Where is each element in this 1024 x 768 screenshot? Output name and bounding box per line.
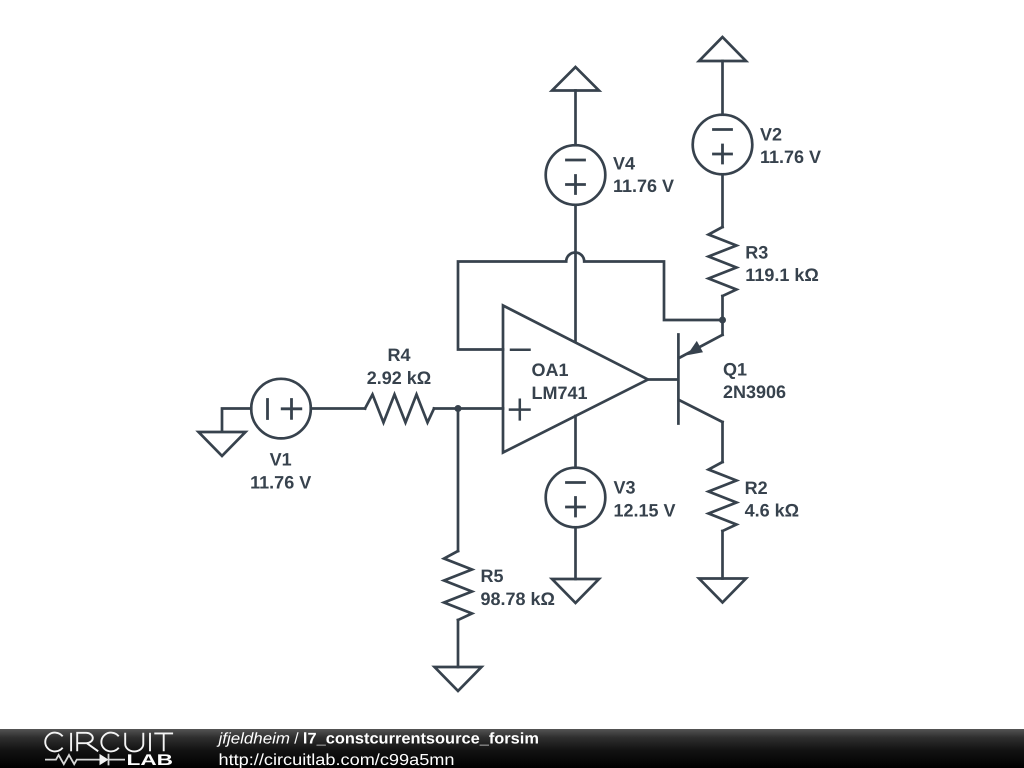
- svg-text:V2: V2: [760, 125, 782, 145]
- node A junction: [455, 405, 462, 412]
- label V1 11.76 V: [250, 450, 311, 493]
- svg-text:98.78 kΩ: 98.78 kΩ: [481, 589, 556, 609]
- label R5 98.78 kOhm: [481, 566, 556, 609]
- svg-text:OA1: OA1: [532, 360, 569, 380]
- transistor Q1: [678, 335, 722, 424]
- svg-text:V1: V1: [270, 450, 292, 470]
- wire op-amp V- to V3: [574, 416, 577, 468]
- wire V1 to R4: [311, 407, 365, 410]
- wire R3 to node B: [721, 296, 724, 320]
- resistor R4: [365, 395, 434, 423]
- voltage source V2: [693, 115, 753, 175]
- svg-text:12.15 V: 12.15 V: [614, 501, 676, 521]
- svg-text:119.1 kΩ: 119.1 kΩ: [745, 265, 819, 285]
- svg-text:jfjeldheim / l7_constcurrentso: jfjeldheim / l7_constcurrentsource_forsi…: [216, 730, 539, 747]
- svg-text:V3: V3: [614, 478, 636, 498]
- svg-text:2N3906: 2N3906: [723, 382, 786, 402]
- svg-text:LM741: LM741: [532, 383, 588, 403]
- power supply arrow (V4 net): [552, 67, 599, 91]
- ground (R5): [435, 667, 482, 691]
- voltage source V3: [546, 468, 606, 528]
- svg-text:R3: R3: [745, 243, 768, 263]
- power supply arrow (V2 net): [699, 37, 746, 61]
- voltage source V4: [546, 145, 606, 205]
- wire node A to R5: [457, 409, 460, 552]
- label R2 4.6 kOhm: [745, 478, 799, 521]
- ground (V3): [552, 579, 599, 603]
- resistor R3: [709, 227, 737, 296]
- label R4 2.92 kOhm: [367, 345, 431, 388]
- ground (V1): [199, 432, 246, 456]
- resistor R5: [444, 551, 472, 620]
- wire V4 to op-amp V+: [574, 205, 577, 342]
- resistor R2: [709, 462, 737, 531]
- label Q1 2N3906: [723, 360, 786, 403]
- wire R5 to ground: [457, 620, 460, 667]
- wire power arrow to V2: [721, 61, 724, 115]
- svg-text:11.76 V: 11.76 V: [613, 176, 674, 196]
- svg-text:LAB: LAB: [127, 752, 174, 768]
- footer bar: [0, 729, 1024, 768]
- wire R2 to ground: [721, 531, 724, 579]
- CircuitLab logo: [45, 733, 173, 768]
- svg-text:R5: R5: [481, 566, 504, 586]
- svg-text:11.76 V: 11.76 V: [760, 147, 821, 167]
- label V3 12.15 V: [614, 478, 676, 521]
- label V4 11.76 V: [613, 154, 674, 197]
- node B junction: [719, 317, 726, 324]
- label R3 119.1 kOhm: [745, 243, 819, 286]
- svg-text:V4: V4: [613, 154, 635, 174]
- svg-text:R2: R2: [745, 478, 768, 498]
- label V2 11.76 V: [760, 125, 821, 168]
- wire V2 to R3: [721, 174, 724, 227]
- op-amp OA1: [503, 306, 648, 453]
- wire feedback - input to node B: [458, 252, 723, 349]
- wire op-amp output to Q1 base: [648, 378, 678, 381]
- wire V3 to ground: [574, 527, 577, 579]
- svg-text:4.6 kΩ: 4.6 kΩ: [745, 501, 799, 521]
- svg-text:Q1: Q1: [723, 360, 747, 380]
- label OA1 LM741: [532, 360, 588, 403]
- wire power arrow to V4: [574, 91, 577, 146]
- wire V1 minus to ground: [222, 409, 251, 432]
- wire Q1 collector to R2: [721, 422, 724, 462]
- svg-text:http://circuitlab.com/c99a5mn: http://circuitlab.com/c99a5mn: [219, 752, 455, 768]
- svg-text:11.76 V: 11.76 V: [250, 473, 311, 493]
- svg-text:2.92 kΩ: 2.92 kΩ: [367, 368, 431, 388]
- wire R4 to op-amp + input: [434, 407, 503, 410]
- svg-text:R4: R4: [387, 345, 410, 365]
- ground (R2): [699, 579, 746, 603]
- voltage source V1: [251, 379, 311, 439]
- wire node B to Q1 emitter: [721, 320, 724, 335]
